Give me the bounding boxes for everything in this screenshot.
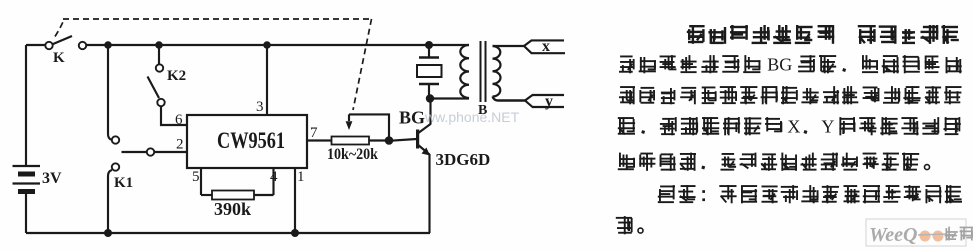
node: top rail / K1 branch junction (104, 41, 112, 49)
battery 3V (13, 166, 63, 192)
wire: secondary top to X (493, 45, 525, 47)
node: top rail / K2 junction (155, 41, 163, 49)
svg-text:BG: BG (767, 54, 792, 74)
svg-text:1: 1 (297, 169, 305, 185)
dashed mechanical link from K to potentiometer (55, 19, 372, 110)
svg-text:K: K (53, 50, 65, 66)
svg-text:BG: BG (399, 108, 425, 128)
switch K (45, 36, 86, 66)
transformer B: core (481, 41, 486, 102)
IC U1: CW9561 (187, 115, 307, 168)
svg-text:CW9561: CW9561 (217, 128, 285, 153)
watermark WeeQoo (866, 219, 973, 246)
switch K1 (selector, pivot on pin-2 wire) (112, 136, 154, 191)
wire: battery to bottom rail (25, 194, 27, 233)
electrode terminal X (524, 38, 565, 55)
wire: bottom ground rail (26, 232, 430, 234)
svg-text:5: 5 (192, 169, 200, 185)
wire: to transformer primary bottom (430, 97, 469, 99)
svg-text:X: X (787, 116, 800, 136)
svg-text:Y: Y (821, 116, 834, 136)
node: crystal bottom / collector / primary junction (426, 94, 434, 102)
svg-text:x: x (542, 38, 550, 55)
svg-text:7: 7 (310, 125, 318, 141)
wire: pin 7 to potentiometer (307, 139, 332, 141)
electrode terminal Y (525, 93, 564, 110)
wire: left rail (25, 45, 27, 165)
svg-text:K1: K1 (114, 175, 133, 191)
svg-text:3DG6D: 3DG6D (436, 150, 491, 169)
node: crystal top / rail junction (425, 41, 433, 49)
resistor 390k (201, 191, 274, 220)
wire: pin 2 (154, 151, 187, 153)
wire: top supply rail (26, 44, 45, 46)
svg-text:ww.phone.NET: ww.phone.NET (424, 109, 520, 125)
svg-text:WeeQ: WeeQ (869, 224, 918, 246)
wire: pin 3 to top rail (266, 45, 268, 115)
wire: pin 4 down (272, 168, 274, 195)
svg-text:6: 6 (175, 112, 183, 128)
node: wiper / base junction (385, 136, 394, 145)
switch K2 (148, 45, 187, 106)
potentiometer RP 10k~20k (327, 114, 417, 163)
node: K1 branch / bottom rail junction (104, 229, 112, 237)
svg-text:2: 2 (176, 137, 184, 153)
description text paragraph (simulated CJK glyphs) (616, 25, 962, 234)
transformer B: secondary winding (493, 46, 501, 97)
wire: pin 1 to bottom rail (294, 168, 296, 233)
wire: pin 5 down (200, 168, 202, 195)
transformer B: primary winding (460, 45, 469, 98)
wire: K1 lower contact to bottom rail (108, 170, 112, 233)
svg-text:390k: 390k (214, 199, 251, 219)
svg-text:K2: K2 (167, 68, 186, 84)
node: pin 1 / bottom rail junction (291, 229, 299, 237)
transistor Q1: BG 3DG6D (399, 99, 490, 234)
svg-text:3V: 3V (42, 170, 62, 187)
node: pin 3 / top rail junction (263, 41, 271, 49)
svg-text:3: 3 (256, 99, 264, 115)
wire: branch rail to K1 (108, 45, 112, 140)
svg-text:4: 4 (270, 169, 278, 185)
wire: secondary bottom to Y (493, 97, 526, 101)
svg-text:y: y (545, 93, 553, 110)
crystal/capacitor element across primary (417, 45, 442, 99)
wire: K2 to pin 6 (161, 106, 187, 125)
svg-text:10k~20k: 10k~20k (327, 146, 378, 163)
